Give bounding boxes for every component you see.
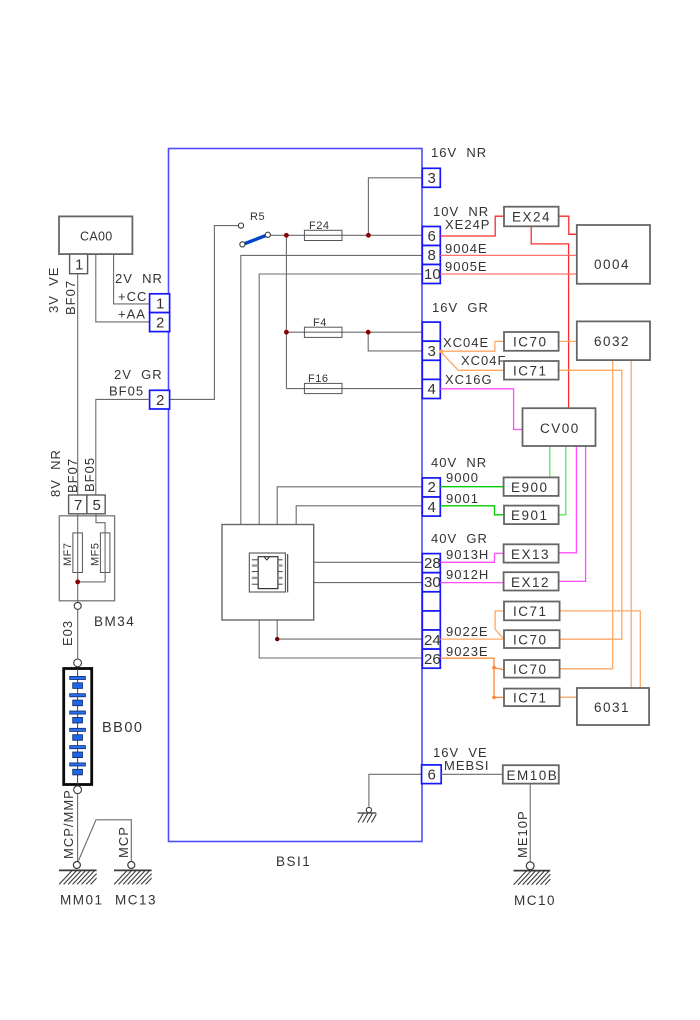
box 6032: [577, 321, 650, 360]
ground MM01: [59, 862, 97, 885]
svg-text:BF05: BF05: [109, 384, 144, 399]
wire pin5 to MF5: [96, 514, 105, 533]
wire 9004E pin8 to 0004: [440, 254, 577, 256]
box EM10B: [503, 765, 559, 783]
connector pin 26: [422, 649, 440, 668]
wire pin3 top to F24 junction: [368, 178, 422, 236]
svg-text:0004: 0004: [594, 257, 630, 272]
connector pin 28: [422, 554, 440, 573]
svg-text:4: 4: [428, 499, 436, 516]
connector pin 1 (2V NR): [150, 294, 170, 313]
wire XE24P red pin6 to EX24: [440, 216, 504, 236]
wire 9023E pin26 to branch: [440, 658, 504, 697]
CPU block U1 outer box: [222, 525, 314, 621]
fuse MF5: [100, 533, 110, 573]
svg-text:9000: 9000: [446, 470, 479, 485]
svg-text:6031: 6031: [594, 700, 630, 715]
wire E03: [77, 609, 79, 659]
wire F24 feed line: [270, 234, 422, 236]
wire green CV00 to E900: [549, 446, 551, 477]
svg-text:EM10B: EM10B: [507, 768, 559, 783]
connector empty pin (16V GR): [422, 322, 440, 341]
svg-text:CV00: CV00: [540, 421, 580, 436]
svg-text:BSI1: BSI1: [276, 854, 311, 869]
switch R5: [238, 211, 270, 247]
connector pin 2 (2V GR BF05): [150, 390, 170, 409]
svg-text:+CC: +CC: [118, 289, 147, 304]
wire pin7 to MF7: [77, 514, 79, 533]
svg-text:30: 30: [424, 574, 441, 591]
wire IC71 to 6031: [559, 611, 641, 688]
svg-text:9022E: 9022E: [446, 624, 489, 639]
svg-text:9023E: 9023E: [446, 644, 489, 659]
connector pin 24: [422, 630, 440, 649]
svg-text:MCP: MCP: [116, 826, 131, 858]
wire IC71 down to IC70 (9022E net): [559, 370, 622, 639]
IC chip symbol: [252, 557, 283, 589]
svg-text:5: 5: [93, 497, 101, 514]
terminal circle BM34 bottom: [74, 602, 81, 609]
wire green CV00 to E901: [559, 446, 566, 515]
relay box IC70 (top): [504, 332, 559, 351]
wire red EX24 down to CV00: [531, 226, 568, 408]
svg-text:3: 3: [428, 343, 436, 360]
svg-text:1: 1: [156, 296, 164, 313]
svg-text:E900: E900: [511, 480, 549, 495]
connector pin 5 of BM34: [87, 495, 105, 514]
wire XC16G magenta pin4 to CV00: [440, 389, 522, 430]
svg-text:1: 1: [75, 257, 83, 274]
relay box IC71 (low): [504, 689, 560, 707]
junction dots: [284, 233, 289, 238]
wire XC04E pin3 to IC70: [440, 341, 504, 351]
connector pin 10: [422, 265, 440, 284]
svg-text:XE24P: XE24P: [445, 217, 490, 232]
terminal circle battery top: [74, 659, 82, 667]
connector empty pins: [422, 592, 440, 611]
svg-text:BF07: BF07: [63, 280, 78, 315]
connector pin 4 (40V NR): [422, 497, 440, 516]
fuse F16: [304, 383, 342, 393]
svg-text:9005E: 9005E: [445, 259, 488, 274]
fuse MF7: [73, 533, 83, 573]
svg-text:MM01: MM01: [60, 893, 104, 908]
svg-text:CA00: CA00: [80, 230, 112, 244]
wire 6032 down to 6031: [630, 360, 632, 688]
relay box E901: [504, 506, 559, 524]
svg-text:24: 24: [424, 632, 441, 649]
svg-text:6: 6: [428, 767, 436, 784]
internal ground E1: [358, 807, 377, 822]
fuse F24: [304, 230, 342, 240]
wire pin 8 to CPU: [241, 255, 422, 524]
ground MC10: [514, 862, 551, 885]
svg-text:F4: F4: [313, 317, 327, 329]
fuse F4: [304, 327, 342, 337]
svg-text:40V GR: 40V GR: [431, 531, 488, 546]
fuse holder box BM34: [59, 516, 114, 601]
svg-text:8V NR: 8V NR: [48, 449, 63, 497]
wire MEBSI pin6 to EM10B: [441, 773, 503, 775]
wire CPU to pin 26: [259, 620, 422, 658]
wire MF7 down to terminal: [77, 573, 79, 603]
connector pin 3 (16V NR): [422, 168, 440, 187]
svg-text:10: 10: [424, 266, 441, 283]
connector empty pin 2 (16V GR): [422, 360, 440, 379]
wire BF05 pin2 down to BM34 pin5: [96, 399, 150, 495]
wire pin 4 to CPU: [296, 506, 422, 525]
svg-text:MF7: MF7: [62, 543, 74, 567]
svg-text:2: 2: [428, 479, 436, 496]
svg-text:6: 6: [428, 228, 436, 245]
relay box IC70 (mid): [504, 630, 560, 648]
junction dot MF: [75, 580, 80, 585]
svg-text:28: 28: [424, 555, 441, 572]
svg-text:F16: F16: [308, 373, 328, 385]
wire MF5 down to junction: [78, 573, 105, 582]
svg-text:2: 2: [156, 315, 164, 332]
wire IC70 to 6032: [559, 340, 577, 342]
svg-text:9013H: 9013H: [446, 547, 489, 562]
svg-text:IC70: IC70: [513, 633, 548, 648]
wire MM01 to MC13 link: [79, 820, 132, 861]
relay box IC71 (top): [504, 361, 559, 380]
wire F4 branch to pin 3: [368, 332, 422, 351]
wire CA00 pin1 down to BM34 pin7: [77, 274, 79, 495]
wire IC71 to 6031 left: [559, 696, 577, 698]
wire battery to MM01 ground: [77, 794, 79, 862]
terminal circle battery bottom: [74, 786, 82, 794]
svg-text:BF05: BF05: [82, 457, 97, 492]
relay box E900: [504, 477, 559, 496]
wire 9000 green pin2 to E900: [440, 486, 503, 488]
svg-text:6032: 6032: [594, 334, 630, 349]
box CV00: [523, 408, 596, 446]
connector pin 6: [422, 227, 440, 246]
wire CPU to pin 30: [314, 582, 422, 584]
svg-text:R5: R5: [250, 211, 265, 223]
svg-text:ME10P: ME10P: [515, 810, 530, 858]
relay box EX13: [504, 544, 559, 562]
connector pin 3 (16V GR): [422, 341, 440, 360]
svg-text:9001: 9001: [446, 491, 479, 506]
wire 9001 green pin4 to E901: [440, 506, 504, 515]
connector pin 2 (2V NR): [150, 313, 170, 332]
svg-text:IC71: IC71: [513, 604, 548, 619]
svg-text:2V GR: 2V GR: [114, 367, 163, 382]
connector pin 7 of BM34: [69, 495, 87, 514]
svg-text:IC70: IC70: [513, 335, 548, 350]
svg-text:F24: F24: [309, 220, 329, 232]
wire 9013H magenta pin28 to EX13: [440, 553, 503, 562]
svg-text:EX12: EX12: [511, 575, 550, 590]
wire CA00 +AA to pin 2: [96, 254, 150, 322]
wire pin 6 MEBSI to internal ground: [369, 774, 422, 806]
wire magenta EX13 to CV00: [559, 446, 577, 553]
wire XC04F pin3 to IC71: [440, 352, 504, 371]
svg-text:BF07: BF07: [65, 458, 80, 493]
svg-text:XC04F: XC04F: [461, 353, 506, 368]
svg-text:26: 26: [424, 651, 441, 668]
connector pin 1 of CA00: [70, 254, 88, 274]
svg-text:EX13: EX13: [511, 547, 550, 562]
connector pin 2 (40V NR): [422, 478, 440, 497]
connector pin 8: [422, 246, 440, 265]
svg-text:+AA: +AA: [118, 307, 146, 322]
wire vertical feed bus: [285, 235, 287, 388]
box 0004: [577, 225, 650, 284]
wire F16 line: [286, 388, 422, 390]
svg-text:3V VE: 3V VE: [46, 267, 61, 313]
wire CA00 +CC to pin 1: [114, 254, 150, 304]
wire magenta EX12 to CV00: [559, 446, 586, 581]
svg-text:9004E: 9004E: [445, 241, 488, 256]
svg-text:IC71: IC71: [513, 364, 548, 379]
junction dot XC04E: [439, 350, 443, 354]
wire 6032 down to IC70 (9023E net): [559, 360, 613, 669]
ground MC13: [114, 862, 152, 885]
svg-text:BM34: BM34: [94, 614, 135, 629]
wire 9012H magenta pin30 to EX12: [440, 582, 503, 584]
wire red EX24 to 0004: [559, 216, 577, 234]
wire pin 2 to CPU: [277, 487, 422, 525]
svg-text:MC13: MC13: [115, 893, 157, 908]
box CA00: [59, 216, 132, 254]
svg-text:7: 7: [74, 497, 82, 514]
connector pin 6 (16V VE): [422, 765, 442, 784]
svg-text:2V NR: 2V NR: [115, 271, 163, 286]
svg-text:BB00: BB00: [102, 720, 143, 736]
svg-text:40V NR: 40V NR: [431, 455, 487, 470]
relay box IC71 (mid): [504, 602, 560, 621]
svg-text:9012H: 9012H: [446, 567, 489, 582]
wire 9023E branch to IC70: [494, 668, 504, 670]
wire CPU to pin 28: [314, 561, 422, 563]
svg-text:4: 4: [428, 381, 436, 398]
wire 9005E pin10 to 0004: [440, 273, 577, 275]
svg-text:MC10: MC10: [514, 893, 556, 908]
wire F4 line: [286, 331, 422, 333]
svg-text:16V NR: 16V NR: [431, 145, 487, 160]
svg-text:MF5: MF5: [90, 543, 102, 567]
connector pin 4 (16V GR): [422, 379, 440, 398]
svg-text:MEBSI: MEBSI: [444, 758, 489, 773]
wire pin 10 to CPU: [259, 274, 422, 525]
svg-text:E901: E901: [511, 508, 549, 523]
wire 9022E branch to IC71: [495, 611, 504, 639]
svg-text:IC71: IC71: [513, 691, 548, 706]
wire CPU to pin 24: [277, 620, 422, 639]
svg-text:EX24: EX24: [512, 210, 551, 225]
svg-text:XC04E: XC04E: [443, 335, 489, 350]
relay box EX24: [504, 207, 559, 227]
svg-text:IC70: IC70: [513, 662, 548, 677]
svg-text:16V GR: 16V GR: [432, 300, 489, 315]
CPU inner frame: [249, 553, 287, 593]
svg-text:E03: E03: [60, 620, 75, 646]
svg-text:3: 3: [428, 170, 436, 187]
svg-text:MCP/MMP: MCP/MMP: [61, 789, 76, 859]
wire BF05 pin2 to R5: [170, 226, 239, 400]
wire EM10B down to MC10 ground: [529, 784, 531, 862]
battery BB00: [64, 669, 92, 785]
relay box IC70 (low): [504, 660, 560, 678]
svg-text:2: 2: [156, 392, 164, 409]
relay box EX12: [504, 572, 559, 590]
box 6031: [577, 688, 649, 725]
svg-text:XC16G: XC16G: [445, 372, 493, 387]
connector pin 30: [422, 573, 440, 592]
svg-text:8: 8: [428, 247, 436, 264]
wire 9022E pin24 to IC70: [440, 638, 504, 640]
BSI1 control unit box: [169, 149, 423, 842]
